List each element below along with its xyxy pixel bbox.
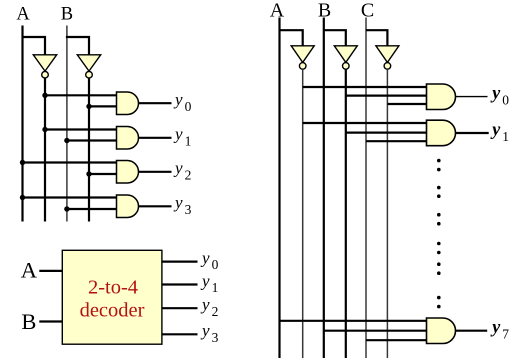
- svg-text:3: 3: [185, 202, 192, 217]
- wire right y1 input 3 (C): [366, 140, 427, 142]
- label y3: [173, 193, 192, 217]
- svg-text:B: B: [61, 5, 73, 25]
- svg-text:A: A: [21, 257, 38, 282]
- wire right y0 input 2 (B'): [346, 94, 427, 96]
- wire right y7 input 3 (C): [366, 339, 427, 341]
- wire y3 output: [139, 205, 172, 207]
- inverter U1 (A): [33, 55, 56, 78]
- label y0: [173, 90, 192, 114]
- label right y7: [490, 317, 509, 342]
- wire B vertical (left): [66, 26, 68, 222]
- wire right y1 input 2 (B'): [346, 132, 427, 134]
- label right y1: [490, 119, 509, 144]
- svg-text:1: 1: [502, 129, 509, 144]
- wire B branch to inverter: [66, 37, 89, 56]
- wire block output y2: [162, 307, 198, 309]
- junction dot B'-y0: [86, 104, 91, 109]
- wire B' vertical (right): [345, 69, 347, 358]
- inverter U4 (B right): [334, 46, 357, 69]
- svg-text:y: y: [173, 125, 183, 144]
- wire right y0 output: [456, 96, 488, 98]
- svg-text:y: y: [200, 271, 210, 290]
- label y1: [173, 125, 191, 149]
- wire right y7 input 2 (B): [324, 330, 427, 332]
- wire right y0 input 3 (C'): [387, 103, 426, 105]
- wire B vertical (right): [323, 18, 325, 359]
- wire C branch to inverter (right): [366, 30, 387, 46]
- svg-text:y: y: [490, 119, 501, 139]
- AND gate y0 (left): [117, 92, 139, 115]
- svg-text:y: y: [200, 321, 210, 340]
- svg-text:y: y: [490, 317, 501, 337]
- wire right y7 output: [456, 330, 488, 332]
- wire right y0 input 1 (A'): [303, 86, 427, 88]
- wire y1 output: [139, 137, 172, 139]
- AND gate y3 (left): [117, 195, 139, 218]
- decoder block U6 (2-to-4 decoder): [62, 250, 162, 344]
- wire A' vertical (right): [302, 69, 304, 358]
- wire A' vertical (left): [44, 78, 46, 221]
- junction dot A'-y1: [42, 127, 47, 132]
- svg-text:0: 0: [212, 257, 219, 272]
- AND gate y1 (right): [427, 120, 456, 146]
- svg-text:7: 7: [502, 327, 509, 342]
- junction dot A-y3: [20, 195, 25, 200]
- junction dot A'-y0: [42, 93, 47, 98]
- junction dot B-y1: [64, 138, 69, 143]
- wire y1 input 2 (B): [67, 139, 117, 141]
- wire y2 output: [139, 171, 172, 173]
- label y2: [173, 159, 191, 183]
- wire y3 input 1 (A): [23, 196, 117, 198]
- wire B' vertical (left): [88, 78, 90, 221]
- svg-text:A: A: [270, 0, 285, 22]
- wire y2 input 1 (A): [23, 161, 117, 163]
- wire y0 input 2 (B'): [89, 105, 117, 107]
- wire A branch to inverter (right): [280, 30, 303, 46]
- AND gate y7 (right): [427, 318, 456, 344]
- AND gate y1 (left): [117, 127, 139, 150]
- wire A branch to inverter: [22, 37, 46, 56]
- svg-text:decoder: decoder: [80, 300, 145, 322]
- inverter U2 (B): [77, 55, 100, 78]
- wire right y7 input 1 (A): [280, 320, 427, 322]
- wire y0 input 1 (A'): [45, 94, 117, 96]
- wire C' vertical (right): [386, 69, 388, 358]
- wire B branch to inverter (right): [324, 30, 346, 46]
- inverter U5 (C right): [376, 46, 399, 69]
- wire y2 input 2 (B'): [89, 173, 117, 175]
- svg-text:2: 2: [212, 304, 219, 319]
- svg-text:2: 2: [185, 167, 192, 182]
- svg-text:C: C: [361, 0, 374, 22]
- svg-text:0: 0: [502, 92, 509, 107]
- wire y0 output: [139, 102, 172, 104]
- wire B to decoder block: [39, 320, 62, 322]
- wire A vertical (left): [21, 26, 23, 222]
- svg-text:y: y: [200, 295, 210, 314]
- label right y0: [490, 83, 509, 108]
- wire y3 input 2 (B): [67, 208, 117, 210]
- wire right y1 output: [456, 132, 489, 134]
- inverter U3 (A right): [291, 46, 314, 69]
- svg-text:B: B: [21, 309, 36, 334]
- junction dot A-y2: [20, 160, 25, 165]
- label block y0: [200, 248, 219, 272]
- svg-text:1: 1: [212, 280, 219, 295]
- label block y3: [200, 321, 219, 345]
- svg-text:y: y: [200, 248, 210, 267]
- AND gate y2 (left): [117, 161, 139, 184]
- svg-text:2-to-4: 2-to-4: [88, 276, 138, 298]
- label block y2: [200, 295, 218, 319]
- ellipsis dots column: [437, 159, 441, 309]
- svg-text:y: y: [173, 193, 183, 212]
- AND gate y0 (right): [427, 84, 456, 110]
- svg-text:1: 1: [185, 133, 192, 148]
- svg-text:0: 0: [185, 99, 192, 114]
- wire A vertical (right): [278, 18, 280, 359]
- svg-text:y: y: [490, 83, 501, 103]
- wire y1 input 1 (A'): [45, 128, 117, 130]
- wire right y1 input 1 (A'): [303, 122, 427, 124]
- wire A to decoder block: [39, 270, 62, 272]
- wire block output y3: [162, 333, 198, 335]
- label block y1: [200, 271, 218, 295]
- junction dot B-y3: [64, 206, 69, 211]
- wire block output y0: [162, 261, 198, 263]
- wire C vertical (right): [365, 18, 367, 359]
- wire block output y1: [162, 283, 198, 285]
- junction dot B'-y2: [86, 171, 91, 176]
- svg-text:A: A: [16, 5, 30, 25]
- svg-text:y: y: [173, 90, 183, 109]
- svg-text:3: 3: [212, 330, 219, 345]
- svg-text:y: y: [173, 159, 183, 178]
